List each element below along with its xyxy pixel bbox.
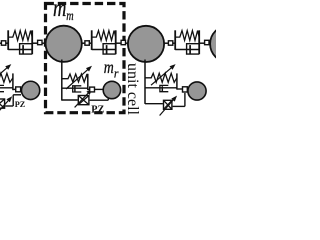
svg-text:m: m bbox=[104, 57, 114, 77]
svg-text:PZ: PZ bbox=[15, 100, 26, 109]
svg-text:m: m bbox=[53, 0, 66, 22]
svg-text:PZ: PZ bbox=[91, 104, 104, 115]
svg-text:unit cell: unit cell bbox=[124, 63, 141, 116]
svg-text:m: m bbox=[66, 8, 74, 23]
